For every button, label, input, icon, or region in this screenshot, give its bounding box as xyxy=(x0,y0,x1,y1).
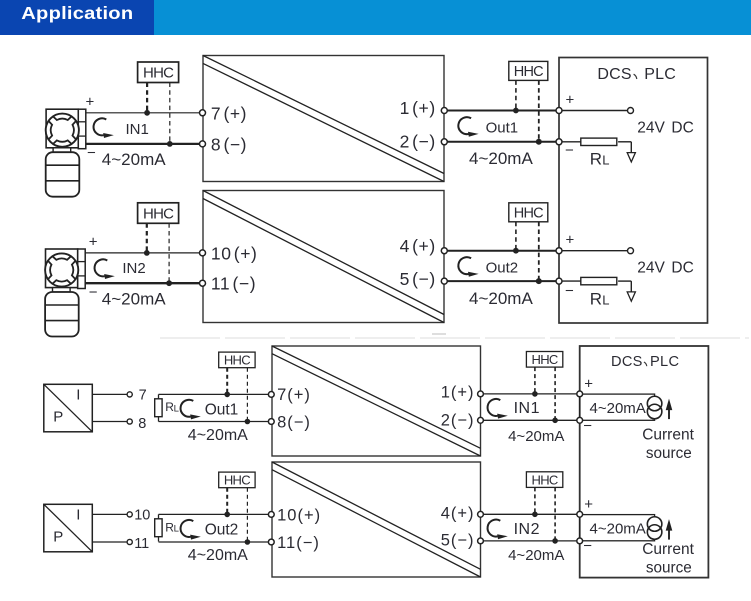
svg-text:7(+): 7(+) xyxy=(211,103,247,123)
svg-text:8: 8 xyxy=(138,416,146,432)
svg-text:+: + xyxy=(566,232,575,249)
svg-text:5(−): 5(−) xyxy=(441,532,475,550)
svg-text:R: R xyxy=(590,290,602,309)
svg-text:11: 11 xyxy=(134,536,149,552)
svg-text:4~20mA: 4~20mA xyxy=(188,427,248,444)
svg-text:−: − xyxy=(87,145,96,162)
svg-text:PLC: PLC xyxy=(644,66,676,83)
svg-text:11(−): 11(−) xyxy=(277,534,320,552)
svg-text:source: source xyxy=(646,560,692,577)
svg-text:PLC: PLC xyxy=(650,354,679,370)
svg-text:4~20mA: 4~20mA xyxy=(188,547,248,564)
svg-text:7(+): 7(+) xyxy=(277,386,311,404)
svg-text:IN1: IN1 xyxy=(514,400,540,417)
svg-text:Out2: Out2 xyxy=(486,260,519,277)
svg-text:source: source xyxy=(646,445,692,462)
svg-text:4~20mA: 4~20mA xyxy=(102,290,166,309)
svg-text:4~20mA: 4~20mA xyxy=(590,521,646,538)
svg-text:7: 7 xyxy=(139,387,147,403)
svg-text:IN2: IN2 xyxy=(514,521,540,538)
svg-text:+: + xyxy=(584,496,593,513)
svg-text:L: L xyxy=(174,403,179,414)
svg-text:−: − xyxy=(565,282,574,299)
svg-text:Out1: Out1 xyxy=(486,120,519,137)
svg-text:L: L xyxy=(602,293,609,308)
svg-text:4~20mA: 4~20mA xyxy=(508,428,564,445)
svg-text:DCS: DCS xyxy=(597,66,631,83)
svg-text:10(+): 10(+) xyxy=(211,243,258,263)
svg-text:4(+): 4(+) xyxy=(400,236,436,256)
svg-text:Out1: Out1 xyxy=(205,401,239,418)
svg-text:5(−): 5(−) xyxy=(400,269,436,289)
svg-text:4~20mA: 4~20mA xyxy=(590,400,646,417)
svg-text:+: + xyxy=(566,91,575,108)
svg-text:4(+): 4(+) xyxy=(441,505,475,523)
svg-text:1(+): 1(+) xyxy=(441,384,475,402)
svg-text:1(+): 1(+) xyxy=(400,98,436,118)
svg-text:−: − xyxy=(565,142,574,159)
svg-text:24V DC: 24V DC xyxy=(637,119,693,136)
svg-text:IN2: IN2 xyxy=(122,260,145,277)
svg-text:−: − xyxy=(583,538,592,555)
svg-text:4~20mA: 4~20mA xyxy=(508,547,564,564)
svg-text:24V DC: 24V DC xyxy=(637,260,693,277)
svg-text:Current: Current xyxy=(642,541,694,558)
svg-text:Application: Application xyxy=(21,4,133,23)
svg-text:L: L xyxy=(602,152,609,167)
svg-text:IN1: IN1 xyxy=(126,121,149,138)
svg-text:R: R xyxy=(590,149,602,168)
svg-text:11(−): 11(−) xyxy=(211,274,256,294)
svg-text:10: 10 xyxy=(134,508,150,524)
svg-text:+: + xyxy=(89,234,98,251)
svg-text:−: − xyxy=(89,284,98,301)
svg-text:8(−): 8(−) xyxy=(277,414,311,432)
svg-text:4~20mA: 4~20mA xyxy=(469,289,533,308)
svg-text:4~20mA: 4~20mA xyxy=(469,149,533,168)
svg-text:L: L xyxy=(174,524,179,535)
svg-text:8(−): 8(−) xyxy=(211,134,247,154)
svg-text:+: + xyxy=(86,94,95,111)
svg-text:−: − xyxy=(583,417,592,434)
svg-text:Out2: Out2 xyxy=(205,522,239,539)
svg-text:4~20mA: 4~20mA xyxy=(102,150,166,169)
svg-text:2(−): 2(−) xyxy=(400,131,436,151)
svg-text:Current: Current xyxy=(642,426,694,443)
svg-text:10(+): 10(+) xyxy=(277,507,321,525)
svg-text:2(−): 2(−) xyxy=(441,411,475,429)
svg-text:DCS: DCS xyxy=(611,354,643,370)
svg-text:+: + xyxy=(584,375,593,392)
